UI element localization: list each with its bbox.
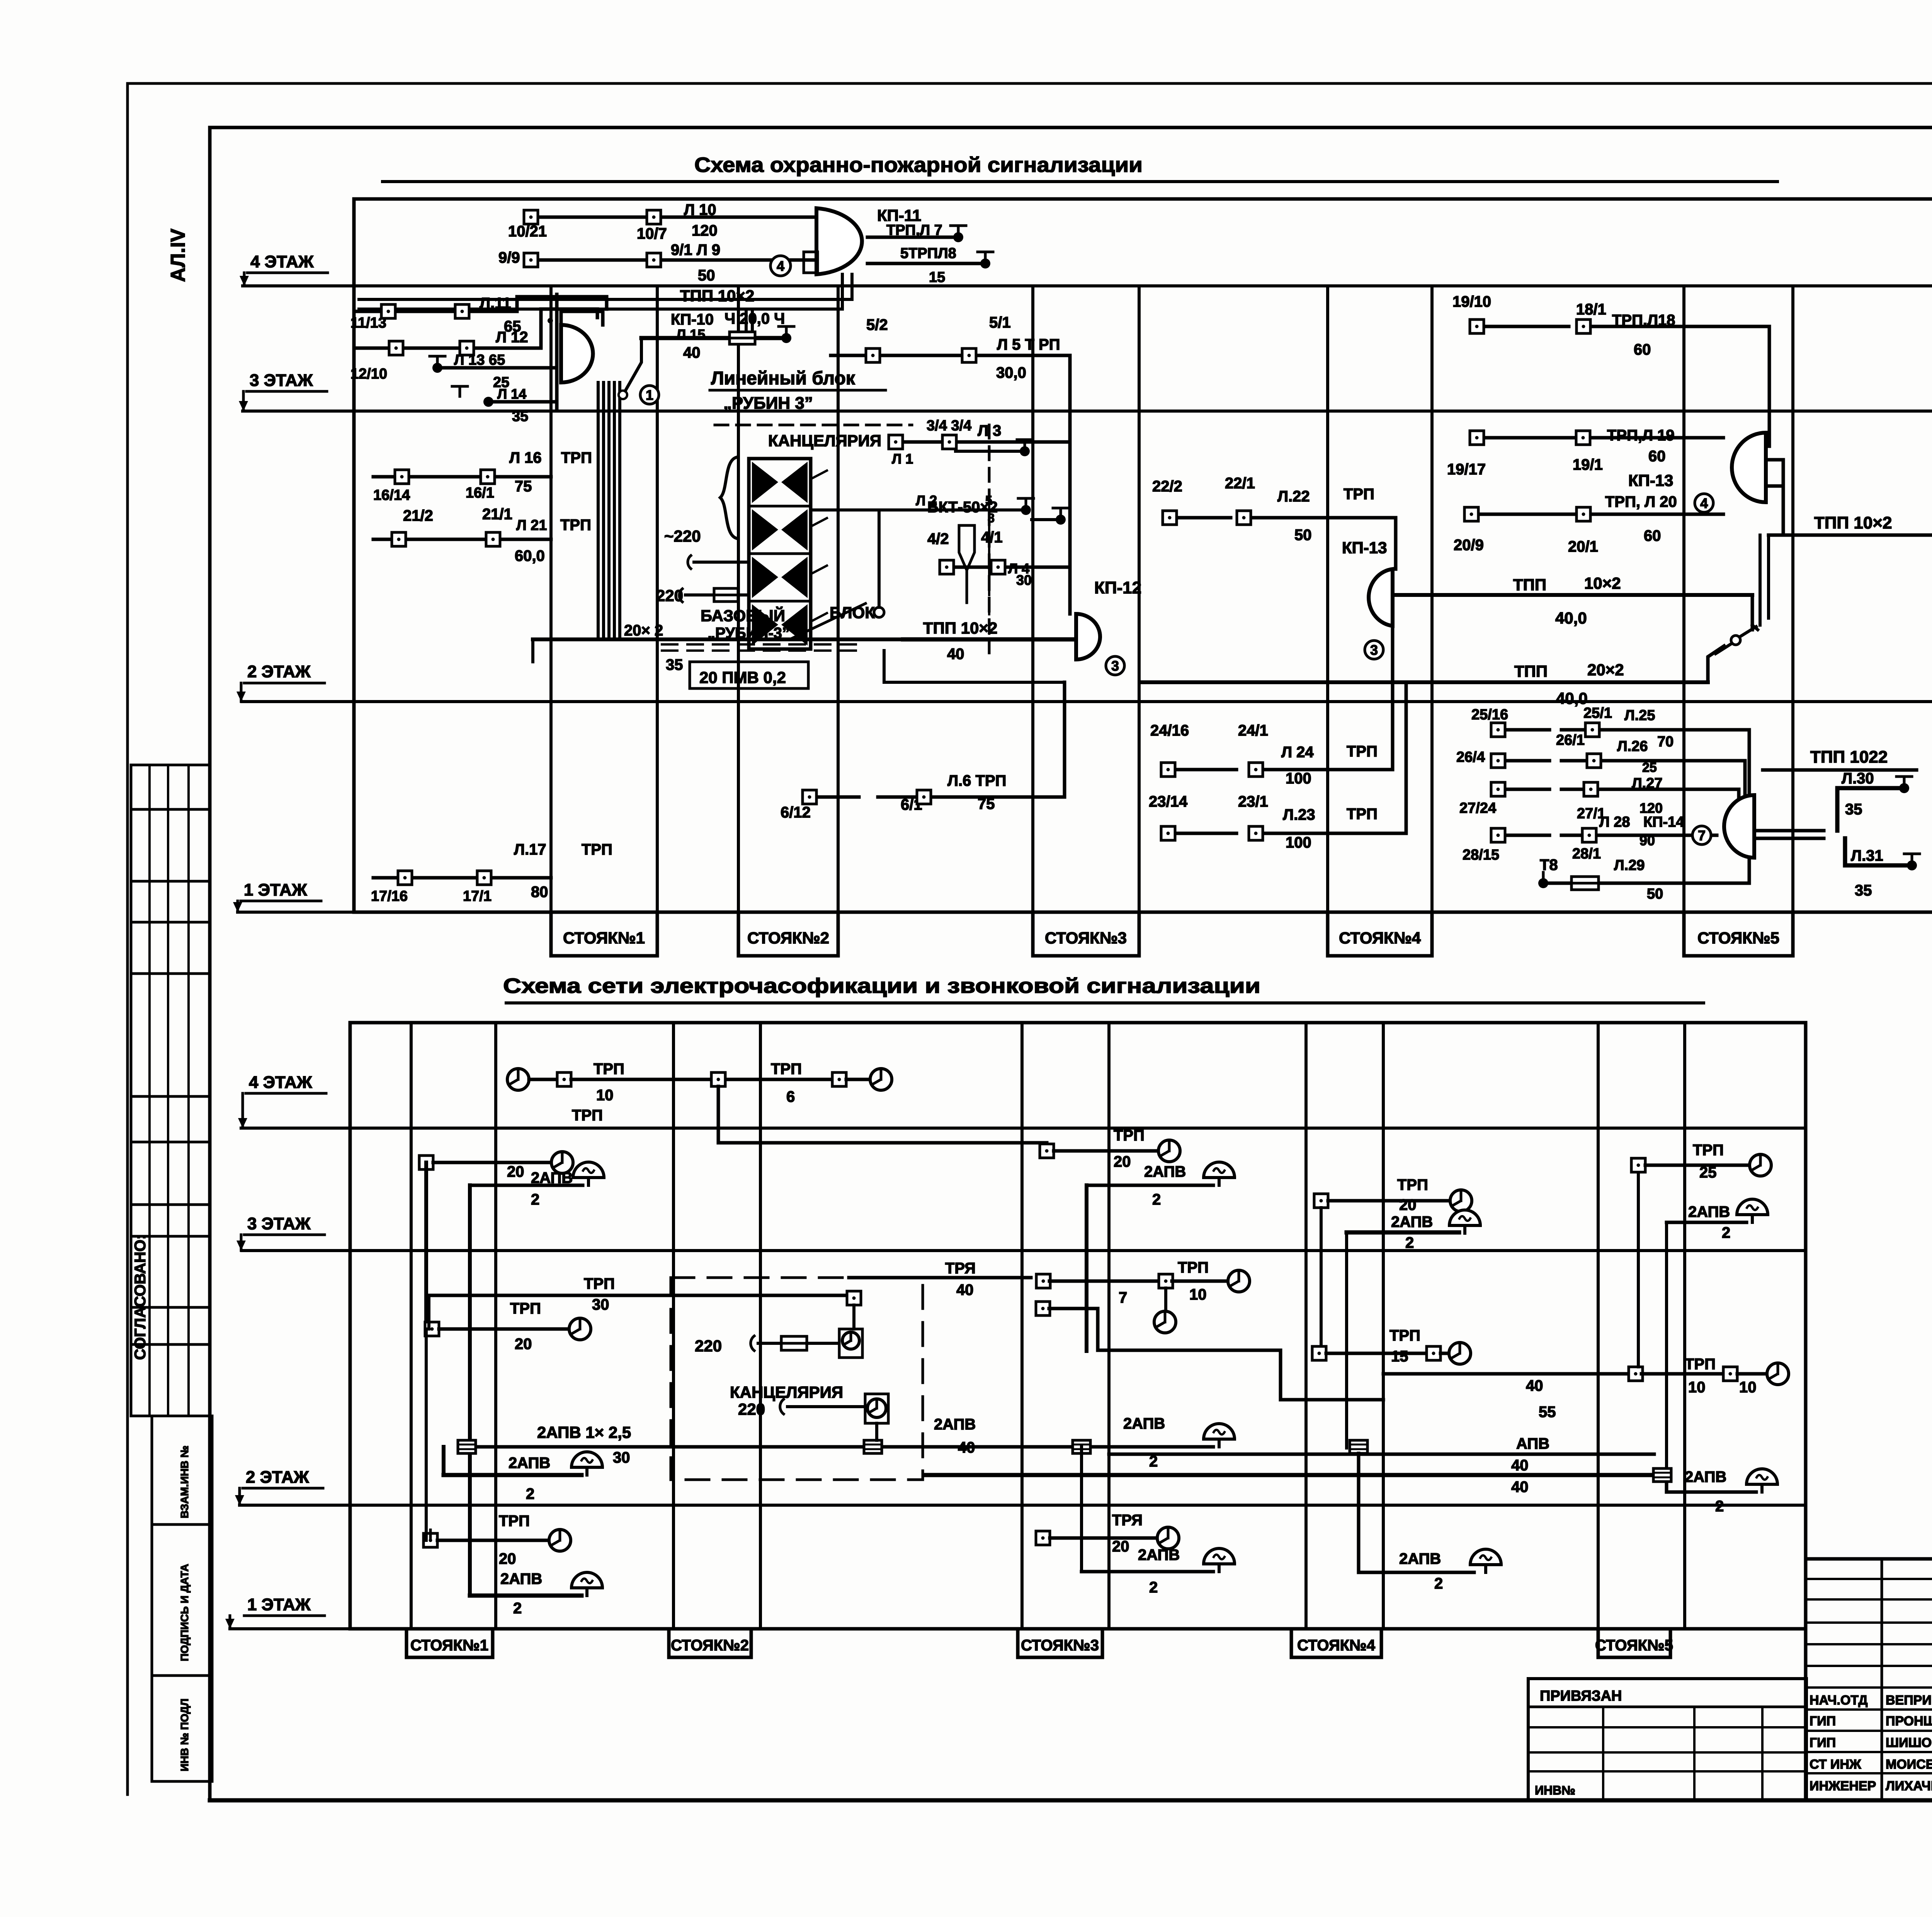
svg-text:40: 40 xyxy=(947,646,964,663)
svg-text:БКТ-50×2: БКТ-50×2 xyxy=(927,499,998,516)
svg-text:40: 40 xyxy=(1511,1457,1529,1474)
svg-text:12/10: 12/10 xyxy=(350,366,387,382)
svg-text:2АПВ: 2АПВ xyxy=(1138,1547,1180,1564)
svg-text:ТРП: ТРП xyxy=(1397,1176,1428,1193)
bell on 2АПВ wire xyxy=(1204,1424,1235,1439)
svg-text:6/12: 6/12 xyxy=(781,804,811,821)
svg-text:1 ЭТАЖ: 1 ЭТАЖ xyxy=(244,880,307,899)
svg-text:Л.23: Л.23 xyxy=(1283,806,1315,823)
svg-text:5/1: 5/1 xyxy=(989,314,1011,331)
riser lines СТОЯК№1 s2 xyxy=(410,1023,413,1629)
svg-text:Л.30: Л.30 xyxy=(1842,770,1874,787)
svg-text:15: 15 xyxy=(929,269,945,286)
svg-text:20/9: 20/9 xyxy=(1454,537,1484,554)
svg-text:ТРП: ТРП xyxy=(1693,1142,1724,1159)
svg-text:2 ЭТАЖ: 2 ЭТАЖ xyxy=(247,662,311,681)
sheet outer border top xyxy=(128,82,1932,85)
wire КП-14 output xyxy=(1754,829,1824,833)
svg-text:2: 2 xyxy=(1149,1579,1158,1596)
svg-text:ПРОНШТЕЙН: ПРОНШТЕЙН xyxy=(1886,1713,1932,1728)
concentrator КП-10 gate xyxy=(561,325,593,382)
svg-text:25: 25 xyxy=(1642,760,1657,775)
svg-text:20× 2: 20× 2 xyxy=(624,622,663,639)
bell row r4 floor1 xyxy=(1359,1453,1474,1572)
svg-text:ТПП: ТПП xyxy=(1513,576,1546,594)
svg-text:ТРП: ТРП xyxy=(572,1107,603,1124)
svg-text:28/15: 28/15 xyxy=(1463,847,1499,863)
wire drop from КП-11 xyxy=(841,274,844,309)
svg-text:4: 4 xyxy=(1700,495,1708,511)
svg-text:50: 50 xyxy=(698,267,715,284)
bell row r1 floor1 xyxy=(470,1594,582,1598)
svg-text:КП-12: КП-12 xyxy=(1094,578,1141,597)
svg-text:Т8: Т8 xyxy=(1540,857,1558,874)
wire Л.22 drop xyxy=(1394,518,1398,569)
svg-text:ТРП: ТРП xyxy=(510,1300,541,1317)
svg-text:30: 30 xyxy=(592,1296,609,1313)
concentrator КП-11 gate xyxy=(816,208,862,274)
svg-text:СТОЯК№3: СТОЯК№3 xyxy=(1045,929,1127,947)
clock row r1 floor3 xyxy=(425,1322,439,1336)
svg-text:~220: ~220 xyxy=(664,527,701,545)
svg-text:21/2: 21/2 xyxy=(403,507,433,524)
svg-text:23/1: 23/1 xyxy=(1238,793,1268,810)
svg-text:20×2: 20×2 xyxy=(1587,661,1624,679)
svg-text:СТОЯК№2: СТОЯК№2 xyxy=(671,1637,749,1654)
svg-text:2: 2 xyxy=(1715,1498,1724,1515)
clock row r4 ТРП15 xyxy=(1312,1346,1326,1360)
wire Л.31 xyxy=(1845,838,1908,865)
svg-text:СТОЯК№4: СТОЯК№4 xyxy=(1339,929,1421,947)
riser1 long vertical xyxy=(425,1329,428,1540)
splice on 2АПВ wire r4 xyxy=(1350,1440,1367,1453)
svg-text:3/4 3/4: 3/4 3/4 xyxy=(927,418,971,434)
svg-text:2: 2 xyxy=(513,1600,522,1617)
svg-text:7: 7 xyxy=(1698,828,1706,843)
svg-text:24/16: 24/16 xyxy=(1150,722,1189,739)
wire drop to riser3 xyxy=(718,1086,1047,1144)
svg-text:СТОЯК№5: СТОЯК№5 xyxy=(1595,1637,1673,1654)
wire Л.11 loop xyxy=(517,297,607,311)
funnel symbol xyxy=(959,525,975,570)
detector chain 10/21 squares xyxy=(536,216,816,219)
detector chain Л.11 xyxy=(356,310,380,313)
svg-text:20: 20 xyxy=(1114,1153,1131,1170)
svg-text:БЛОК: БЛОК xyxy=(830,603,875,622)
svg-text:20/1: 20/1 xyxy=(1568,538,1598,555)
svg-text:50: 50 xyxy=(1647,886,1663,902)
clock row ТРП25 xyxy=(1631,1158,1645,1172)
riser lines СТОЯК№3 s1 xyxy=(1031,286,1034,912)
wire Л.6 rise xyxy=(1063,682,1066,797)
svg-text:20: 20 xyxy=(499,1550,516,1567)
svg-text:КП-11: КП-11 xyxy=(877,206,921,224)
wire Л.25 drop xyxy=(1748,730,1751,803)
svg-text:30: 30 xyxy=(1016,572,1032,588)
svg-text:ТРП, Л 20: ТРП, Л 20 xyxy=(1605,493,1677,510)
svg-text:НАЧ.ОТД: НАЧ.ОТД xyxy=(1810,1693,1867,1708)
svg-text:ТПП: ТПП xyxy=(1514,662,1548,680)
scheme2 floor line 3 xyxy=(242,1249,1806,1252)
svg-text:ИНВ№: ИНВ№ xyxy=(1535,1783,1575,1797)
svg-text:70: 70 xyxy=(1657,734,1673,750)
svg-text:4/1: 4/1 xyxy=(981,529,1003,546)
wire node to clock ТРП10 xyxy=(1641,1372,1723,1376)
svg-text:3 ЭТАЖ: 3 ЭТАЖ xyxy=(250,371,313,390)
bell row r1 upper xyxy=(470,1184,583,1187)
svg-text:ТРЯ: ТРЯ xyxy=(945,1260,976,1277)
svg-text:220: 220 xyxy=(738,1400,765,1418)
svg-text:100: 100 xyxy=(1286,834,1311,851)
label box 20 ПМВ 0,2 xyxy=(690,662,808,688)
wire ТРП,Л 7 with terminator xyxy=(867,236,954,239)
svg-text:КП-13: КП-13 xyxy=(1628,471,1673,489)
long wire 2АПВ 1x2.5 xyxy=(467,1445,1213,1449)
node circle 3 s1 mid xyxy=(1365,641,1383,659)
svg-text:60: 60 xyxy=(1644,527,1661,544)
svg-text:19/10: 19/10 xyxy=(1452,293,1491,310)
wire ТПП 10x2 to КП-12 xyxy=(903,637,1076,642)
svg-text:20 ПМВ 0,2: 20 ПМВ 0,2 xyxy=(699,668,786,687)
wire Л 24 rise xyxy=(1391,626,1395,770)
svg-text:ТРП: ТРП xyxy=(1685,1356,1716,1373)
svg-text:Линейный блок: Линейный блок xyxy=(711,368,855,389)
svg-text:21/1: 21/1 xyxy=(482,506,512,523)
svg-text:28/1: 28/1 xyxy=(1572,846,1601,862)
riser lines СТОЯК№3 s2 xyxy=(1020,1023,1024,1629)
clock row r3 floor4 xyxy=(1040,1144,1054,1158)
detector chain 9/9 xyxy=(536,258,816,262)
svg-text:55: 55 xyxy=(1539,1404,1556,1421)
svg-text:2АПВ: 2АПВ xyxy=(1685,1468,1726,1485)
svg-text:Л 1: Л 1 xyxy=(892,451,913,467)
svg-text:75: 75 xyxy=(978,795,995,812)
riser lines СТОЯК№4 s1 xyxy=(1326,286,1329,912)
svg-text:Схема охранно-пожарной сигна: Схема охранно-пожарной сигнализации xyxy=(694,153,1143,177)
wire ТРП 30 long xyxy=(429,1294,844,1297)
svg-text:35: 35 xyxy=(1855,882,1872,899)
svg-text:СТОЯК№4: СТОЯК№4 xyxy=(1297,1637,1376,1654)
bell row 2АПВ r5 xyxy=(1667,1221,1747,1224)
svg-text:Л.26: Л.26 xyxy=(1617,738,1648,755)
scheme2 floor line 2 xyxy=(240,1504,1806,1507)
riser4 inter vertical xyxy=(1320,1208,1323,1353)
node circle 3 s1 left xyxy=(1106,656,1124,675)
svg-text:220: 220 xyxy=(695,1337,722,1355)
svg-text:16/1: 16/1 xyxy=(466,485,494,501)
riser5 bundle xyxy=(1759,535,1762,625)
svg-text:ТРП: ТРП xyxy=(582,841,612,858)
svg-text:ТРП: ТРП xyxy=(594,1060,624,1077)
wire ТПП 10x2 40.0 horizontal xyxy=(1393,593,1752,597)
brace xyxy=(720,457,736,538)
wire Л.15 КП-10 row xyxy=(641,336,781,340)
scheme1 floor line 4 xyxy=(243,284,1932,287)
svg-text:2АПВ: 2АПВ xyxy=(1688,1203,1730,1220)
svg-text:20: 20 xyxy=(507,1163,524,1180)
svg-text:Л 28: Л 28 xyxy=(1599,814,1630,830)
svg-text:СТОЯК№1: СТОЯК№1 xyxy=(410,1637,488,1654)
wire Л.30 xyxy=(1837,788,1900,831)
wire Л.29 rise xyxy=(1748,858,1751,883)
svg-text:40: 40 xyxy=(956,1281,974,1298)
riser lines СТОЯК№5 s1 xyxy=(1682,286,1685,912)
svg-text:10×2: 10×2 xyxy=(1584,574,1621,592)
bell row r3 floor2 xyxy=(1082,1570,1213,1574)
svg-text:30: 30 xyxy=(613,1449,630,1466)
collector vertical xyxy=(555,294,559,410)
return wire under КП-12 xyxy=(884,681,1063,684)
wire into box from ТРП30 xyxy=(847,1291,861,1305)
svg-text:2АПВ: 2АПВ xyxy=(509,1455,550,1472)
svg-text:ПРИВЯЗАН: ПРИВЯЗАН xyxy=(1540,1688,1622,1704)
clock row r1 floor2 xyxy=(423,1533,437,1547)
wire Л.26 drop xyxy=(1743,761,1747,803)
wire Л18 drop to КП-13b xyxy=(1768,326,1771,446)
svg-text:АЛ.IV: АЛ.IV xyxy=(167,228,189,282)
svg-text:ВЕПРИНЦКИЙ: ВЕПРИНЦКИЙ xyxy=(1886,1693,1932,1708)
svg-text:2: 2 xyxy=(531,1191,539,1208)
wire Л 12 loop xyxy=(541,309,597,348)
svg-text:9/1 Л 9: 9/1 Л 9 xyxy=(671,241,720,258)
svg-text:6: 6 xyxy=(786,1088,795,1105)
svg-text:17/16: 17/16 xyxy=(371,888,408,904)
svg-text:Л 10: Л 10 xyxy=(684,201,716,218)
svg-text:ТРП,Л 7: ТРП,Л 7 xyxy=(886,222,942,238)
riser lines СТОЯК№5 s2 xyxy=(1597,1023,1600,1629)
dashed outline канцелярия xyxy=(715,424,912,427)
riser1 inter verticals xyxy=(424,1162,428,1329)
svg-text:4: 4 xyxy=(777,258,784,274)
riser label box СТОЯК№3 s2 xyxy=(1018,1629,1102,1657)
splice box r45 xyxy=(1653,1468,1671,1482)
pointer diagonal xyxy=(792,603,866,638)
scheme1 floor line 3 xyxy=(243,410,1932,413)
svg-text:5ТРПЛ8: 5ТРПЛ8 xyxy=(900,245,956,262)
svg-text:9/9: 9/9 xyxy=(498,249,520,266)
signature rows xyxy=(1806,1708,1932,1711)
riser lines СТОЯК№1 s1 xyxy=(549,286,553,912)
svg-text:Л.22: Л.22 xyxy=(1277,488,1310,505)
wire КП-13b output xyxy=(1766,458,1783,462)
svg-text:Л.15: Л.15 xyxy=(676,326,705,342)
svg-text:АПВ: АПВ xyxy=(1516,1435,1549,1452)
block side ticks xyxy=(811,471,827,479)
svg-text:2: 2 xyxy=(1152,1191,1161,1208)
svg-text:Л.6 ТРП: Л.6 ТРП xyxy=(947,772,1006,789)
signature table blank rows xyxy=(1806,1578,1932,1580)
scheme2 enclosure box xyxy=(350,1023,1806,1629)
signature table columns xyxy=(1881,1559,1883,1800)
svg-text:10: 10 xyxy=(596,1087,614,1104)
clock row r4 upper xyxy=(1314,1194,1328,1208)
wires АПВ 40 40 xyxy=(1109,1453,1654,1456)
margin stamp strip xyxy=(151,1416,153,1781)
svg-text:10: 10 xyxy=(1688,1379,1706,1396)
svg-text:2АПВ: 2АПВ xyxy=(500,1570,542,1587)
svg-text:2: 2 xyxy=(1405,1234,1414,1251)
svg-text:2АПВ 1× 2,5: 2АПВ 1× 2,5 xyxy=(537,1423,631,1441)
svg-text:40: 40 xyxy=(1526,1377,1543,1394)
long wire to node xyxy=(1383,1372,1630,1376)
svg-text:23/14: 23/14 xyxy=(1149,793,1188,810)
svg-text:СОГЛАСОВАНО:: СОГЛАСОВАНО: xyxy=(132,1234,149,1360)
svg-text:60: 60 xyxy=(1634,341,1651,358)
collector wire down to КП-12 xyxy=(1068,355,1072,614)
svg-text:ТРП: ТРП xyxy=(1178,1259,1209,1276)
svg-text:ТРП: ТРП xyxy=(771,1060,802,1077)
riser label box СТОЯК№5 s2 xyxy=(1598,1629,1670,1657)
clock chain floor4 xyxy=(507,1069,529,1090)
svg-text:40: 40 xyxy=(958,1439,975,1456)
svg-text:СТОЯК№3: СТОЯК№3 xyxy=(1021,1637,1099,1654)
svg-text:4/2: 4/2 xyxy=(927,530,949,547)
hanging clock xyxy=(1164,1288,1167,1311)
bell row r1 mid xyxy=(444,1473,582,1477)
svg-text:ТПП 1022: ТПП 1022 xyxy=(1810,748,1888,766)
wire Л 2 from block xyxy=(811,508,1020,512)
svg-text:ТРП: ТРП xyxy=(561,449,592,466)
svg-text:КП-10: КП-10 xyxy=(671,311,714,328)
title underline 2 xyxy=(506,1001,1704,1004)
svg-text:БАЗОВЫЙ: БАЗОВЫЙ xyxy=(701,606,785,625)
svg-text:Л 14: Л 14 xyxy=(497,386,526,402)
node circle 7 xyxy=(1692,826,1711,845)
dashed vertical xyxy=(988,506,990,634)
svg-text:10/21: 10/21 xyxy=(508,223,547,240)
svg-text:50: 50 xyxy=(1294,527,1312,544)
svg-text:40,0: 40,0 xyxy=(1555,609,1587,627)
svg-text:2АПВ: 2АПВ xyxy=(1399,1550,1441,1567)
svg-text:10: 10 xyxy=(1739,1379,1757,1396)
sheet outer border left xyxy=(126,83,129,1795)
dashed room box КАНЦЕЛЯРИЯ xyxy=(671,1278,923,1480)
svg-text:КП-13: КП-13 xyxy=(1342,539,1387,557)
svg-text:80: 80 xyxy=(531,884,548,901)
svg-text:ТРП: ТРП xyxy=(1344,486,1374,503)
detector block cells xyxy=(749,459,811,649)
svg-text:ГИП: ГИП xyxy=(1810,1735,1836,1750)
concentrator КП-14 gate xyxy=(1724,795,1754,858)
svg-text:1 ЭТАЖ: 1 ЭТАЖ xyxy=(247,1595,311,1614)
svg-text:МОИСЕЕВА: МОИСЕЕВА xyxy=(1886,1757,1932,1772)
riser label box СТОЯК№1 s2 xyxy=(406,1629,493,1657)
svg-text:5/2: 5/2 xyxy=(866,316,888,333)
svg-text:3 ЭТАЖ: 3 ЭТАЖ xyxy=(247,1214,311,1233)
svg-text:17/1: 17/1 xyxy=(463,888,492,904)
wire Л.27 drop xyxy=(1737,789,1741,803)
svg-text:2АПВ: 2АПВ xyxy=(1123,1415,1165,1432)
svg-text:4 ЭТАЖ: 4 ЭТАЖ xyxy=(249,1073,312,1092)
svg-text:ТРП: ТРП xyxy=(560,517,591,534)
svg-text:100: 100 xyxy=(1286,770,1311,787)
svg-text:2АПВ: 2АПВ xyxy=(1391,1213,1433,1230)
attachment table ПРИВЯЗАН xyxy=(1528,1679,1806,1800)
svg-text:2: 2 xyxy=(1434,1575,1443,1592)
svg-text:ИНВ № ПОДЛ: ИНВ № ПОДЛ xyxy=(179,1699,190,1771)
node circle 1 xyxy=(640,386,659,404)
svg-text:Л 5 Т РП: Л 5 Т РП xyxy=(997,336,1060,353)
title underline xyxy=(383,180,1777,183)
svg-text:22/2: 22/2 xyxy=(1152,478,1182,495)
svg-text:Л.29: Л.29 xyxy=(1614,857,1645,874)
svg-text:2: 2 xyxy=(526,1485,534,1502)
riser label box СТОЯК№1 s1 xyxy=(551,912,657,956)
svg-text:1: 1 xyxy=(646,387,653,403)
svg-text:СТ ИНЖ: СТ ИНЖ xyxy=(1810,1757,1861,1772)
riser lines СТОЯК№2 s1 xyxy=(737,286,740,912)
riser label box СТОЯК№2 s1 xyxy=(738,912,838,956)
svg-text:40,0: 40,0 xyxy=(1556,689,1588,707)
svg-text:2АПВ: 2АПВ xyxy=(934,1416,976,1433)
svg-text:КАНЦЕЛЯРИЯ: КАНЦЕЛЯРИЯ xyxy=(730,1383,843,1401)
svg-text:КП-14: КП-14 xyxy=(1643,814,1684,830)
svg-text:ТПП 10×2: ТПП 10×2 xyxy=(680,287,754,305)
svg-text:120: 120 xyxy=(692,222,718,239)
svg-text:Л 12: Л 12 xyxy=(496,329,528,346)
svg-text:Ч 20,0 Ч: Ч 20,0 Ч xyxy=(724,310,785,327)
svg-text:60,0: 60,0 xyxy=(515,547,545,564)
svg-text:25/1: 25/1 xyxy=(1583,705,1612,721)
svg-text:ИНЖЕНЕР: ИНЖЕНЕР xyxy=(1810,1779,1876,1793)
svg-text:ТРП: ТРП xyxy=(584,1275,615,1292)
svg-text:60: 60 xyxy=(1648,448,1666,465)
bell row r3 upper xyxy=(1087,1184,1213,1187)
svg-text:20: 20 xyxy=(1112,1538,1129,1555)
svg-text:Л 24: Л 24 xyxy=(1281,744,1314,761)
junction Y xyxy=(1751,595,1754,630)
svg-text:35: 35 xyxy=(666,656,683,673)
svg-text:24/1: 24/1 xyxy=(1238,722,1268,739)
node circle 4 right xyxy=(1695,494,1713,512)
concentrator КП-13b gate xyxy=(1732,433,1766,502)
svg-text:75: 75 xyxy=(515,478,532,495)
svg-text:Л 3: Л 3 xyxy=(978,422,1001,439)
gate top shelf xyxy=(561,311,603,325)
svg-text:25: 25 xyxy=(1699,1164,1717,1181)
scheme2 floor line 4 xyxy=(241,1127,1806,1130)
svg-text:СТОЯК№2: СТОЯК№2 xyxy=(747,929,829,947)
svg-text:26/1: 26/1 xyxy=(1556,732,1585,748)
svg-text:ТПП 10×2: ТПП 10×2 xyxy=(923,619,997,637)
svg-text:19/1: 19/1 xyxy=(1573,456,1603,473)
svg-text:ГИП: ГИП xyxy=(1810,1714,1836,1728)
vertical to ТРП25 xyxy=(1637,1173,1640,1367)
junction circle 2 xyxy=(874,607,884,617)
svg-text:10/7: 10/7 xyxy=(637,225,667,242)
svg-text:7: 7 xyxy=(1119,1289,1127,1306)
svg-text:20: 20 xyxy=(1399,1196,1417,1213)
title block outline xyxy=(1806,1557,1932,1561)
svg-text:15: 15 xyxy=(1391,1348,1408,1365)
svg-text:ТРП,Л 19: ТРП,Л 19 xyxy=(1607,427,1675,444)
svg-text:Схема сети электрочасофикации: Схема сети электрочасофикации и звонково… xyxy=(503,974,1260,998)
svg-text:Л 16: Л 16 xyxy=(509,449,542,466)
svg-text:Л.25: Л.25 xyxy=(1624,707,1655,724)
junction circle xyxy=(619,391,627,399)
node circle 4 xyxy=(770,256,791,276)
svg-text:35: 35 xyxy=(1845,801,1862,818)
svg-text:ТРП: ТРП xyxy=(1389,1327,1420,1344)
wire ТПП 20x2 40.0 xyxy=(1140,680,1708,684)
wire 20x2 bundle to base block xyxy=(533,637,903,641)
svg-text:20: 20 xyxy=(515,1336,532,1353)
drawing frame xyxy=(210,126,1932,129)
riser label box СТОЯК№4 s1 xyxy=(1328,912,1432,956)
wire ТПП 10x2 right xyxy=(1769,534,1932,537)
svg-text:120: 120 xyxy=(1639,800,1663,816)
wire Л.23 rise xyxy=(1405,682,1408,833)
